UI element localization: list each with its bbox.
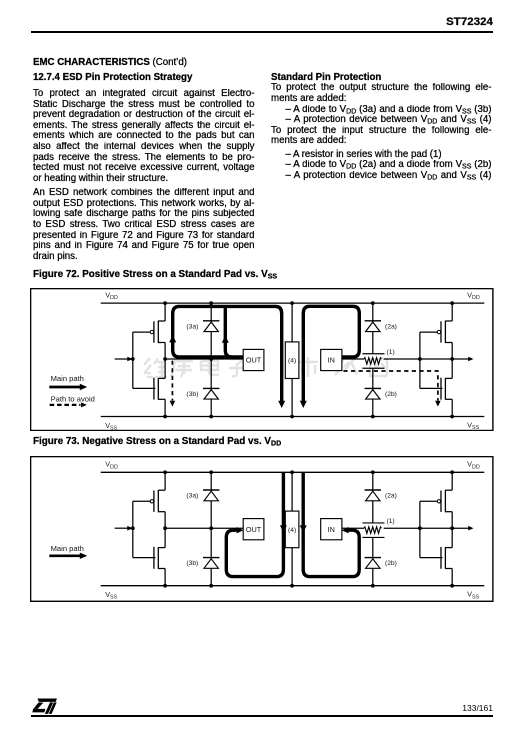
- VDD rail: [101, 302, 485, 304]
- figure 72 schematic: [30, 288, 494, 431]
- legend path to avoid arrow: [50, 404, 81, 406]
- legend main path arrow: [50, 386, 81, 389]
- svg-text:(3a): (3a): [187, 323, 199, 330]
- path to avoid at output: [172, 361, 174, 401]
- junction on VSS rail x135.1: [164, 415, 168, 419]
- diode 2b: [365, 387, 381, 389]
- main path into OUT pad: [227, 472, 284, 576]
- junction on VDD rail x262.1: [290, 301, 294, 305]
- junction on VSS rail x342.8: [371, 415, 375, 419]
- input wire to output driver: [115, 527, 129, 529]
- diode 3a branch wire: [210, 303, 212, 359]
- input buffer PMOS gate bar: [440, 321, 442, 342]
- svg-text:(3a): (3a): [187, 492, 199, 499]
- resistor lead from IN: [342, 527, 364, 529]
- svg-text:(1): (1): [387, 349, 395, 356]
- node junction x135.1: [164, 526, 168, 530]
- output wire of input buffer: [452, 358, 470, 360]
- node junction x422.2: [451, 526, 455, 530]
- resistor bottom bar: [363, 367, 385, 369]
- legend path to avoid arrowhead: [81, 402, 87, 407]
- caption figure 73: [33, 436, 281, 447]
- svg-text:Main path: Main path: [51, 544, 84, 553]
- junction on VDD rail x422.2: [451, 470, 455, 474]
- diode 3a branch wire: [211, 472, 213, 528]
- caption figure 72: [33, 269, 277, 280]
- watermark: [141, 355, 391, 383]
- junction on VDD rail x342.8: [371, 301, 375, 305]
- resistor 1 zigzag: [364, 527, 381, 533]
- input buffer PMOS src wire: [451, 472, 453, 490]
- output driver PMOS channel: [158, 490, 160, 512]
- main path down arrow 2: [300, 401, 307, 408]
- junction on VDD rail x262.1: [290, 470, 294, 474]
- legend main path arrowhead: [80, 552, 87, 558]
- output driver NMOS drain wire: [164, 528, 166, 547]
- svg-text:IN: IN: [328, 525, 335, 534]
- input arrowhead: [128, 357, 133, 362]
- input buffer PMOS drain wire: [451, 342, 453, 358]
- resistor top bar: [363, 353, 385, 355]
- resistor top bar: [363, 522, 385, 524]
- input buffer PMOS stub2: [446, 510, 453, 512]
- output driver NMOS stub1: [159, 546, 166, 548]
- header rule: [31, 31, 493, 33]
- output arrowhead: [468, 357, 473, 362]
- junction on VSS rail x342.8: [371, 584, 375, 588]
- input buffer PMOS drain wire: [451, 511, 453, 527]
- output driver NMOS channel: [158, 547, 160, 569]
- IN pad box: [321, 518, 342, 539]
- figure 73 schematic: [30, 456, 494, 602]
- input buffer NMOS gate lead: [420, 387, 443, 389]
- input buffer PMOS stub1: [446, 489, 453, 491]
- input buffer PMOS stub2: [446, 341, 453, 343]
- diode 3b branch wire: [210, 359, 212, 416]
- output driver NMOS stub2: [159, 398, 166, 400]
- protection device 4 top wire: [291, 303, 293, 342]
- output driver NMOS gate lead: [133, 556, 156, 558]
- input buffer NMOS stub1: [446, 377, 453, 379]
- svg-text:(4): (4): [288, 527, 296, 534]
- resistor lead to input buffer: [384, 527, 420, 529]
- protection device 4 bottom wire: [291, 378, 293, 416]
- diode 3b branch wire: [211, 528, 213, 585]
- input buffer PMOS stub1: [446, 320, 453, 322]
- input buffer NMOS stub1: [446, 546, 453, 548]
- main path down arrow 1: [278, 401, 285, 408]
- output driver PMOS gate lead: [133, 500, 150, 502]
- svg-text:(4): (4): [288, 358, 296, 365]
- main path up arrow 2: [222, 335, 229, 342]
- svg-text:VDD: VDD: [106, 459, 119, 470]
- diode 3b: [203, 556, 219, 558]
- junction on VDD rail x181.2: [210, 470, 214, 474]
- main path up arrow 1: [170, 335, 177, 342]
- node junction x102.8: [131, 526, 135, 530]
- svg-text:VDD: VDD: [467, 290, 480, 301]
- output wire of input buffer: [452, 527, 470, 529]
- svg-text:Path to avoid: Path to avoid: [51, 394, 95, 403]
- junction on VDD rail x181.2: [210, 301, 214, 305]
- output driver PMOS src wire: [164, 472, 166, 490]
- svg-text:VSS: VSS: [106, 421, 118, 431]
- junction on VSS rail x135.1: [164, 584, 168, 588]
- left text column: [33, 58, 255, 263]
- protection device 4 top wire: [291, 472, 293, 511]
- figure frame: [31, 289, 493, 431]
- diode 3a: [203, 320, 219, 322]
- svg-text:(2b): (2b): [385, 560, 397, 567]
- diode 2b: [365, 556, 381, 558]
- OUT pad box: [243, 349, 264, 370]
- input buffer NMOS gate bar: [440, 378, 442, 400]
- input buffer NMOS src wire: [451, 568, 453, 585]
- output driver NMOS stub1: [159, 377, 166, 379]
- output driver PMOS stub1: [159, 320, 166, 322]
- svg-text:(2b): (2b): [385, 391, 397, 398]
- output driver NMOS src wire: [164, 568, 166, 585]
- node junction x135.1: [164, 357, 168, 361]
- output driver PMOS gate lead: [133, 331, 150, 333]
- node junction x181.2: [210, 357, 214, 361]
- main path arrowhead into IN: [342, 527, 349, 533]
- input buffer NMOS drain wire: [451, 359, 453, 378]
- input buffer gate wire: [419, 501, 421, 557]
- gate node wire: [420, 527, 452, 529]
- diode 2a branch wire: [372, 472, 374, 523]
- junction on VDD rail x422.2: [451, 301, 455, 305]
- output driver PMOS bubble: [151, 330, 154, 333]
- page number: [393, 703, 493, 713]
- output driver NMOS stub2: [159, 567, 166, 569]
- diode 2b branch wire: [372, 537, 374, 585]
- OUT pad box: [243, 518, 264, 539]
- svg-text:(3b): (3b): [187, 560, 199, 567]
- main path into IN pad: [303, 472, 359, 576]
- input buffer gate wire: [419, 332, 421, 388]
- footer rule: [31, 715, 493, 717]
- junction on VSS rail x262.1: [290, 584, 294, 588]
- node junction x181.2: [210, 526, 214, 530]
- protection device 4 box: [286, 511, 300, 548]
- node junction x102.8: [131, 357, 135, 361]
- junction on VDD rail x342.8: [371, 470, 375, 474]
- input buffer NMOS channel: [445, 378, 447, 400]
- output driver PMOS channel: [158, 321, 160, 343]
- input buffer PMOS bubble: [438, 499, 441, 502]
- output arrowhead: [468, 526, 473, 531]
- diode 2b branch wire: [372, 368, 374, 416]
- svg-text:VSS: VSS: [106, 590, 118, 601]
- input buffer NMOS stub2: [446, 398, 453, 400]
- header: part number: [0, 16, 493, 28]
- gate node wire: [420, 358, 452, 360]
- input buffer PMOS bubble: [438, 330, 441, 333]
- junction on VDD rail x135.1: [164, 301, 168, 305]
- output driver PMOS drain wire: [164, 511, 166, 527]
- svg-text:(3b): (3b): [187, 391, 199, 398]
- node junction x389.9: [418, 357, 422, 361]
- footer: ST logo: [32, 698, 58, 715]
- output driver PMOS stub2: [159, 510, 166, 512]
- main path arrowhead into OUT: [237, 527, 244, 533]
- svg-text:VDD: VDD: [106, 290, 119, 301]
- output driver PMOS drain wire: [164, 342, 166, 358]
- output driver NMOS gate bar: [153, 378, 155, 400]
- output driver NMOS drain wire: [164, 359, 166, 378]
- input buffer PMOS channel: [445, 490, 447, 512]
- main path branch: [226, 306, 232, 357]
- pad node wire: [165, 527, 243, 529]
- input buffer NMOS gate bar: [440, 547, 442, 569]
- output driver gate wire: [132, 501, 134, 557]
- resistor 1 zigzag: [364, 358, 381, 364]
- output driver NMOS gate lead: [133, 387, 156, 389]
- svg-text:(2a): (2a): [385, 323, 397, 330]
- output driver PMOS src wire: [164, 303, 166, 321]
- svg-text:(2a): (2a): [385, 492, 397, 499]
- input buffer NMOS gate lead: [420, 556, 443, 558]
- legend main path arrowhead: [80, 384, 87, 390]
- input buffer PMOS src wire: [451, 303, 453, 321]
- figure frame: [31, 456, 493, 601]
- main path around diode 3a: [173, 306, 282, 401]
- svg-text:VDD: VDD: [467, 459, 480, 470]
- protection device 4 box: [286, 342, 300, 379]
- node junction x389.9: [418, 526, 422, 530]
- svg-text:VSS: VSS: [467, 420, 479, 431]
- output driver PMOS stub1: [159, 489, 166, 491]
- output driver PMOS stub2: [159, 341, 166, 343]
- legend main path arrow: [50, 554, 81, 557]
- input buffer NMOS channel: [445, 547, 447, 569]
- output driver gate wire: [132, 332, 134, 388]
- junction on VDD rail x135.1: [164, 470, 168, 474]
- output driver PMOS gate bar: [153, 321, 155, 342]
- resistor lead to input buffer: [384, 358, 420, 360]
- svg-text:(1): (1): [387, 518, 395, 525]
- diode 2a: [365, 320, 381, 322]
- diode 3b: [203, 387, 219, 389]
- path to avoid arrowhead 1: [170, 401, 176, 407]
- svg-text:OUT: OUT: [246, 525, 262, 534]
- input arrowhead: [128, 526, 133, 531]
- svg-text:OUT: OUT: [246, 356, 262, 365]
- junction on VSS rail x422.2: [451, 415, 455, 419]
- input buffer NMOS stub2: [446, 567, 453, 569]
- junction on VSS rail x422.2: [451, 584, 455, 588]
- protection device 4 bottom wire: [291, 547, 293, 585]
- output driver NMOS channel: [158, 378, 160, 400]
- svg-text:Main path: Main path: [51, 374, 84, 383]
- input buffer NMOS src wire: [451, 399, 453, 416]
- svg-text:IN: IN: [328, 356, 335, 365]
- VSS rail: [101, 584, 485, 586]
- output driver PMOS bubble: [151, 499, 154, 502]
- input buffer NMOS drain wire: [451, 528, 453, 547]
- resistor lead from IN: [342, 358, 364, 360]
- svg-text:VSS: VSS: [467, 589, 479, 600]
- input buffer PMOS gate bar: [440, 490, 442, 511]
- pad node wire: [165, 358, 243, 360]
- junction on VSS rail x181.2: [210, 415, 214, 419]
- junction on VSS rail x181.2: [210, 584, 214, 588]
- VSS rail: [101, 415, 485, 417]
- path to avoid arrowhead 2: [435, 401, 441, 407]
- main path down arrow 1: [280, 525, 287, 532]
- output driver NMOS gate bar: [153, 547, 155, 569]
- diode 2a branch wire: [372, 303, 374, 354]
- output driver PMOS gate bar: [153, 490, 155, 511]
- path to avoid at input: [344, 371, 438, 401]
- input buffer PMOS gate lead: [420, 331, 437, 333]
- node junction x422.2: [451, 357, 455, 361]
- VDD rail: [101, 471, 485, 473]
- IN pad box: [321, 349, 342, 370]
- diode 2a: [365, 489, 381, 491]
- resistor bottom bar: [363, 536, 385, 538]
- main path down arrow 2: [300, 525, 307, 532]
- right text column: [271, 73, 492, 182]
- diode 3a: [203, 489, 219, 491]
- input wire to output driver: [115, 358, 129, 360]
- junction on VSS rail x262.1: [290, 415, 294, 419]
- input buffer PMOS channel: [445, 321, 447, 343]
- main path from IN pad: [304, 306, 360, 402]
- input buffer PMOS gate lead: [420, 500, 437, 502]
- output driver NMOS src wire: [164, 399, 166, 416]
